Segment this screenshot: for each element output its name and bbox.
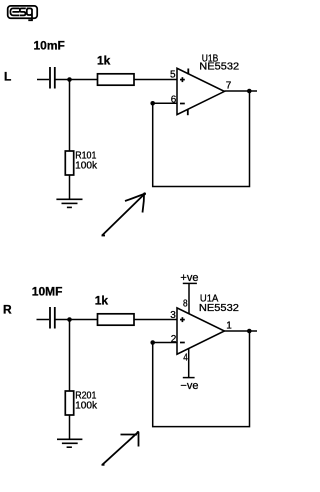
wire input L to capacitor <box>37 79 49 81</box>
svg-text:4: 4 <box>183 353 188 364</box>
svg-text:+ve: +ve <box>180 272 198 284</box>
wire junction down to R101 <box>69 80 71 152</box>
svg-text:10MF: 10MF <box>32 285 63 299</box>
ground <box>56 199 82 207</box>
wire inverting input pin 2 <box>153 342 177 344</box>
wire capacitor to resistor <box>56 319 98 321</box>
wire junction down to R201 <box>69 320 71 392</box>
capacitor C2 <box>50 307 55 329</box>
wire input R to capacitor <box>37 319 50 321</box>
wire resistor to op-amp pin 3 <box>135 319 178 321</box>
wire R201 to ground <box>69 415 71 439</box>
junction feedback node <box>150 340 155 345</box>
junction node B <box>67 317 72 322</box>
wire resistor to op-amp pin 5 <box>135 79 178 81</box>
wire feedback loop <box>153 91 250 187</box>
svg-text:7: 7 <box>226 81 232 92</box>
svg-text:1k: 1k <box>97 54 111 68</box>
annotation arrow top <box>102 192 147 235</box>
resistor R1 1k <box>98 74 135 85</box>
ground <box>57 439 82 447</box>
wire capacitor to resistor <box>56 79 98 81</box>
svg-text:10mF: 10mF <box>34 39 65 53</box>
svg-text:100k: 100k <box>75 161 98 172</box>
wire inverting input pin 6 <box>153 102 177 104</box>
capacitor C1 <box>50 67 55 89</box>
wire feedback loop <box>153 331 250 427</box>
svg-text:2: 2 <box>171 334 177 345</box>
junction output node <box>247 89 252 94</box>
svg-text:100k: 100k <box>75 401 98 412</box>
annotation arrow bottom <box>102 431 140 465</box>
svg-text:8: 8 <box>183 299 188 310</box>
op-amp U1B <box>177 68 224 115</box>
resistor R201 <box>65 391 73 415</box>
wire output pin 7 <box>224 90 257 92</box>
svg-text:1k: 1k <box>95 294 109 308</box>
power -ve rail <box>183 348 195 377</box>
resistor R101 <box>65 151 73 175</box>
svg-text:5: 5 <box>170 70 176 81</box>
junction output node <box>247 329 252 334</box>
junction feedback node <box>150 101 155 106</box>
svg-text:L: L <box>4 70 11 84</box>
svg-text:3: 3 <box>170 310 176 321</box>
svg-text:−ve: −ve <box>180 380 198 392</box>
junction node A <box>67 77 72 82</box>
ESP logo <box>8 6 38 20</box>
wire output pin 1 <box>224 330 257 332</box>
svg-text:R: R <box>3 303 12 317</box>
svg-text:NE5532: NE5532 <box>199 62 239 73</box>
svg-text:1: 1 <box>226 321 232 332</box>
svg-text:6: 6 <box>171 95 177 106</box>
op-amp U1A <box>177 308 224 354</box>
svg-text:NE5532: NE5532 <box>199 303 239 314</box>
resistor R2 1k <box>98 314 135 325</box>
wire R101 to ground <box>69 175 71 199</box>
power +ve rail <box>183 283 197 313</box>
